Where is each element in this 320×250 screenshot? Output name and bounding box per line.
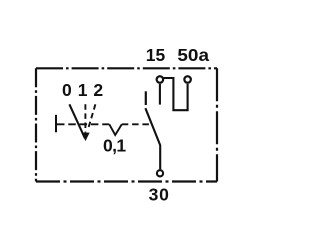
svg-text:30: 30 — [149, 184, 170, 204]
svg-text:50a: 50a — [177, 45, 209, 65]
svg-text:0,1: 0,1 — [103, 135, 126, 155]
svg-text:15: 15 — [146, 45, 166, 65]
svg-text:0 1 2: 0 1 2 — [62, 80, 104, 100]
